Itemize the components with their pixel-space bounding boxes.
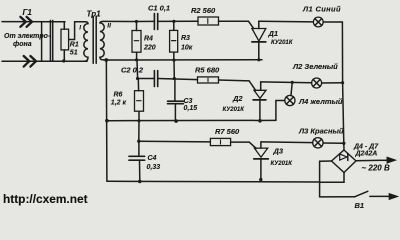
svg-text:R3: R3 <box>181 35 190 42</box>
svg-text:Тр1: Тр1 <box>87 9 102 18</box>
resistor R3 <box>170 21 178 60</box>
wire bridge right to mains arrow <box>356 159 388 162</box>
wire C2 left <box>138 78 155 80</box>
svg-text:II: II <box>107 22 111 29</box>
capacitor C4 <box>129 141 145 181</box>
wire R3 bottom to C2-right node <box>173 60 175 78</box>
wire D1 anode to lamp L1 <box>259 20 314 23</box>
thyristor D1 <box>249 21 266 60</box>
svg-text:R5 680: R5 680 <box>195 65 220 74</box>
resistor R1 <box>61 22 69 61</box>
svg-text:R6: R6 <box>114 91 123 98</box>
svg-text:От электро-: От электро- <box>4 33 51 40</box>
connector G1 arrow bottom <box>24 56 36 67</box>
svg-text:Д3: Д3 <box>273 146 284 155</box>
capacitor C1 <box>154 14 157 30</box>
svg-text:1,2 к: 1,2 к <box>111 100 127 107</box>
wire L2 to right bus <box>322 82 343 84</box>
svg-text:Л1 Синий: Л1 Синий <box>302 4 341 13</box>
resistor R4 <box>132 22 141 60</box>
svg-text:Д1: Д1 <box>268 29 279 38</box>
wire R2 to D1 gate <box>219 20 249 22</box>
svg-text:Д242А: Д242А <box>355 150 378 157</box>
wire bridge left to switch <box>320 161 355 197</box>
wire vertical left <box>41 22 43 62</box>
wire bus to bridge <box>343 143 345 150</box>
capacitor C2 <box>154 71 157 87</box>
resistor R7 <box>210 138 230 145</box>
svg-text:КУ201К: КУ201К <box>271 40 294 46</box>
svg-text:В1: В1 <box>355 201 365 210</box>
bridge rectifier D4-D7 <box>332 150 357 173</box>
wire R5 to D2 gate <box>219 79 250 82</box>
mains arrow top <box>387 158 395 163</box>
wire L4 top lead <box>291 82 292 95</box>
wire vertical pair <box>49 20 51 61</box>
wire bottom rail <box>107 180 320 183</box>
svg-text:http://cxem.net: http://cxem.net <box>3 192 88 206</box>
wire R1 tap <box>69 22 75 40</box>
lamp L2 green <box>312 78 322 88</box>
svg-text:С4: С4 <box>148 155 157 162</box>
wire R7 to D3 gate <box>231 141 250 143</box>
wire L3 to bus node <box>323 142 344 144</box>
svg-text:~ 220 В: ~ 220 В <box>362 164 390 173</box>
svg-text:Л3 Красный: Л3 Красный <box>298 126 344 135</box>
wire top input <box>2 21 65 23</box>
svg-text:С3: С3 <box>184 98 193 105</box>
wire R6 to R7 node <box>138 121 140 141</box>
wire L1 to right bus <box>323 21 342 23</box>
wire secondary top rail <box>104 20 154 22</box>
svg-text:С2 0,2: С2 0,2 <box>121 66 144 75</box>
svg-text:фона: фона <box>13 41 32 48</box>
wire R4 bottom to C2 node <box>136 60 139 79</box>
capacitor C3 <box>168 79 184 122</box>
resistor R6 <box>135 91 144 121</box>
wire C2 to R5 <box>158 79 198 80</box>
wire rail-2 <box>107 119 276 121</box>
wire bridge bottom corner <box>320 173 344 183</box>
wire switch to mains arrow <box>370 195 390 197</box>
svg-text:Д2: Д2 <box>232 94 243 103</box>
wire D3 anode to lamp L3 <box>261 141 313 144</box>
svg-text:Г1: Г1 <box>23 8 33 17</box>
svg-text:R7 560: R7 560 <box>215 127 240 136</box>
wire C1 to R3 node <box>158 20 198 22</box>
svg-text:КУ201К: КУ201К <box>223 107 246 113</box>
svg-text:220: 220 <box>143 44 156 51</box>
transformer Tr1 primary winding I <box>75 22 88 61</box>
wire D2 anode to lamp L2 <box>261 81 312 84</box>
svg-text:R1: R1 <box>70 42 79 49</box>
wire R7 row left <box>139 140 211 143</box>
transformer Tr1 secondary winding II <box>100 21 106 60</box>
wire bottom input <box>2 60 87 62</box>
svg-text:0,33: 0,33 <box>147 164 161 171</box>
resistor R2 <box>198 17 219 25</box>
resistor R5 <box>198 77 219 83</box>
wire right bus <box>342 22 343 143</box>
wire R6 chain <box>137 79 139 91</box>
switch V1 <box>355 191 368 197</box>
svg-text:0,15: 0,15 <box>184 105 198 112</box>
thyristor D3 <box>249 142 268 180</box>
svg-text:51: 51 <box>70 49 78 56</box>
svg-text:I: I <box>79 24 81 31</box>
mains arrow bottom <box>389 194 397 199</box>
svg-text:Л2 Зеленый: Л2 Зеленый <box>292 62 338 71</box>
thyristor D2 <box>249 81 266 121</box>
connector G1 arrow top <box>20 17 32 27</box>
svg-text:С1 0,1: С1 0,1 <box>148 3 170 12</box>
wire left bus <box>105 60 108 181</box>
lamp L4 yellow <box>285 95 295 105</box>
lamp L1 blue <box>313 17 323 27</box>
wire L4 to rail-2 <box>276 101 285 121</box>
lamp L3 red <box>313 138 323 148</box>
svg-text:Л4 желтый: Л4 желтый <box>298 97 343 106</box>
svg-text:Д4 - Д7: Д4 - Д7 <box>353 143 379 150</box>
svg-text:R4: R4 <box>144 36 153 43</box>
svg-text:R2 560: R2 560 <box>191 6 216 15</box>
svg-text:КУ201К: КУ201К <box>271 161 294 167</box>
transformer Tr1 core <box>92 17 94 64</box>
svg-text:10к: 10к <box>181 44 193 51</box>
wire rail-1 common <box>106 59 262 61</box>
